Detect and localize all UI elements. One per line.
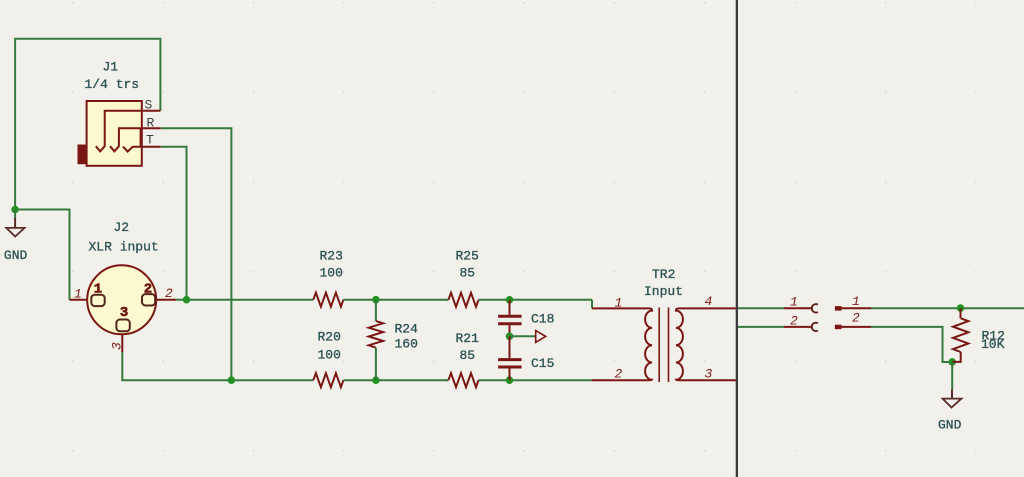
- J2 pin 1 lead: [70, 299, 88, 301]
- J2 pin 2 hole: [142, 294, 155, 305]
- resistor R24 (vertical): [369, 300, 383, 381]
- wire pin2 junction to R23: [176, 299, 313, 301]
- svg-text:85: 85: [460, 266, 476, 281]
- wire pin3 to bottom rail: [122, 352, 313, 380]
- capacitor C15: [498, 336, 521, 380]
- junction C15 bottom: [506, 376, 514, 384]
- svg-text:100: 100: [320, 266, 343, 281]
- wire divider to female pin 1: [738, 307, 784, 309]
- J2 pin 3 hole: [116, 320, 129, 332]
- female connector pin 1: [784, 304, 818, 312]
- svg-text:10K: 10K: [981, 337, 1005, 352]
- wire R23 to R24 node: [343, 299, 448, 301]
- wire from J1 ring to bottom rail: [161, 128, 232, 380]
- wire from GND junction to XLR pin 1: [15, 210, 69, 300]
- junction R12 bottom / GND node: [948, 358, 956, 366]
- svg-text:2: 2: [852, 311, 860, 326]
- unconnected arrow marker: [536, 331, 546, 343]
- svg-text:TR2: TR2: [652, 267, 675, 282]
- svg-text:4: 4: [705, 294, 713, 309]
- svg-text:1: 1: [852, 294, 860, 309]
- svg-text:1: 1: [94, 282, 102, 298]
- svg-text:Input: Input: [644, 284, 683, 299]
- wire male pin1 to right edge: [871, 307, 1024, 309]
- wire from J1 tip to signal rail: [161, 147, 187, 300]
- transformer TR2 pin 2: [592, 379, 649, 381]
- male connector pin 2: [835, 325, 872, 330]
- svg-text:C18: C18: [531, 312, 554, 327]
- svg-text:T: T: [146, 133, 154, 148]
- J1 pin R: [142, 127, 161, 129]
- sheet divider line: [736, 0, 738, 477]
- wire male pin2 to R12 bottom: [871, 327, 952, 362]
- capacitor C18: [498, 300, 521, 337]
- junction R24 top: [372, 296, 380, 304]
- svg-text:3: 3: [110, 342, 125, 350]
- svg-text:2: 2: [144, 282, 152, 298]
- TR2 primary winding: [645, 308, 652, 380]
- resistor R25: [448, 293, 478, 307]
- transformer TR2 pin 3: [679, 379, 736, 381]
- connector J1 body: [78, 101, 142, 166]
- male connector pin 1: [835, 306, 872, 311]
- junction bottom rail / ring node: [228, 376, 236, 384]
- svg-text:1/4 trs: 1/4 trs: [85, 77, 140, 92]
- transformer TR2 pin 4: [679, 307, 736, 309]
- female connector pin 2: [784, 323, 818, 331]
- svg-text:85: 85: [460, 348, 476, 363]
- ground symbol GND (right): [943, 362, 962, 408]
- svg-text:3: 3: [120, 305, 128, 321]
- svg-text:R20: R20: [318, 330, 341, 345]
- svg-text:R23: R23: [320, 249, 343, 264]
- transformer TR2 pin 1: [592, 307, 649, 309]
- J2 pin 3 lead: [121, 334, 123, 352]
- svg-text:R: R: [147, 116, 155, 131]
- junction R12 top: [957, 304, 965, 312]
- svg-text:GND: GND: [938, 418, 962, 433]
- junction at GND node: [11, 206, 19, 214]
- svg-text:100: 100: [318, 348, 341, 363]
- J2 pin 1 hole: [91, 295, 104, 306]
- svg-text:1: 1: [615, 296, 623, 311]
- svg-text:3: 3: [705, 367, 713, 382]
- resistor R20: [313, 373, 343, 387]
- resistor R21: [448, 373, 478, 387]
- junction signal/tip node: [183, 296, 191, 304]
- wire R25 to C18 node: [479, 299, 593, 301]
- svg-text:S: S: [145, 98, 153, 113]
- J2 pin 2 lead: [156, 299, 176, 301]
- svg-text:J2: J2: [114, 220, 130, 235]
- J1 sleeve contact: [96, 111, 142, 152]
- J1 tip contact: [123, 128, 142, 151]
- resistor R12 (vertical): [952, 308, 968, 362]
- svg-text:2: 2: [615, 367, 623, 382]
- TR2 secondary winding: [676, 308, 683, 380]
- J1 pin S: [142, 110, 161, 112]
- junction C18 top: [506, 296, 514, 304]
- wire S-loop from J1 sleeve to GND rail: [15, 39, 160, 210]
- svg-text:2: 2: [790, 314, 798, 329]
- J1 pin T: [142, 146, 161, 148]
- svg-text:GND: GND: [4, 248, 28, 263]
- wire R21 to C15 node: [479, 379, 592, 381]
- wire divider to female pin 2: [738, 326, 784, 328]
- svg-text:160: 160: [395, 337, 418, 352]
- ground symbol GND (left): [6, 210, 24, 237]
- wire C18 node to TR2 pin1: [591, 300, 593, 309]
- wire R20 to R24 bottom node: [343, 379, 448, 381]
- svg-text:R21: R21: [456, 331, 480, 346]
- svg-text:J1: J1: [103, 60, 119, 75]
- wire mid node to arrow: [510, 335, 536, 337]
- svg-text:1: 1: [74, 287, 82, 302]
- junction R24 bottom: [372, 376, 380, 384]
- J1 ring contact: [110, 128, 142, 151]
- svg-text:XLR input: XLR input: [89, 240, 159, 255]
- TR2 core: [659, 308, 668, 383]
- svg-text:R25: R25: [456, 249, 479, 264]
- svg-text:2: 2: [165, 286, 173, 301]
- svg-text:R24: R24: [395, 322, 419, 337]
- connector J2 XLR body: [87, 265, 156, 334]
- junction C18/C15 mid node: [506, 333, 514, 341]
- svg-text:1: 1: [790, 295, 798, 310]
- resistor R23: [313, 293, 343, 307]
- svg-text:C15: C15: [531, 356, 554, 371]
